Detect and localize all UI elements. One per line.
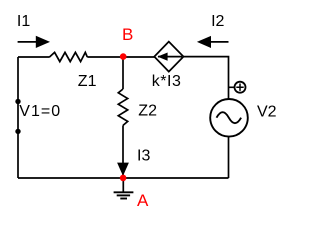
wire: top-left segment to resistor [18,56,50,58]
polarity mark + of V2 [229,82,246,93]
controlled current source k*I3 (diamond) [154,42,183,72]
svg-text:Z1: Z1 [78,73,97,90]
current arrow I2 [197,36,229,48]
AC voltage source V2 [210,99,248,137]
wire: V2 bottom to bottom-right corner [228,136,230,178]
wire: node B down to Z2 [122,57,124,89]
wire: node B to controlled source [123,56,155,58]
svg-text:B: B [122,25,133,44]
voltage source V1=0 terminals (black dots) [15,99,20,104]
wire: Z2 down to node A [122,125,124,178]
svg-text:V1=0: V1=0 [19,103,61,120]
svg-text:I3: I3 [137,147,150,164]
current arrow I1 [18,36,50,48]
wire: resistor Z1 to node B [87,56,123,58]
svg-text:k*I3: k*I3 [152,73,182,90]
wire: bottom horizontal [18,177,229,179]
impedance Z2 [118,89,127,125]
node A (red junction dot) [120,175,127,182]
current arrow I3 [117,163,129,176]
ground [114,178,134,199]
svg-text:I1: I1 [17,13,30,30]
node B (red junction dot) [120,53,127,60]
svg-text:I2: I2 [211,13,224,30]
svg-text:A: A [137,191,149,210]
wire: controlled source to top-right corner [184,57,229,100]
svg-text:Z2: Z2 [138,102,157,119]
resistor Z1 [50,52,88,61]
wire: left vertical (V1 branch) [17,57,19,178]
svg-text:V2: V2 [257,103,277,120]
